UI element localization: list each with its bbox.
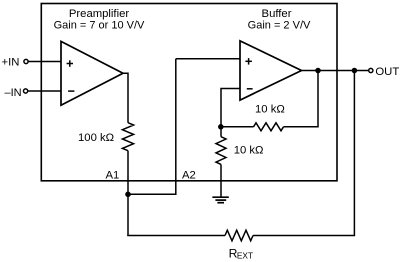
op-amp A1 + pin symbol bbox=[67, 60, 73, 67]
svg-text:+IN: +IN bbox=[2, 57, 20, 69]
wire to A2 noninverting input bbox=[176, 58, 240, 60]
svg-text:10 kΩ: 10 kΩ bbox=[234, 145, 264, 157]
wire feedback node to resistor bbox=[221, 126, 254, 128]
wire feedback node to ground resistor bbox=[220, 127, 222, 137]
op-amp A2 (buffer) bbox=[240, 41, 302, 100]
svg-text:EXT: EXT bbox=[237, 250, 253, 260]
svg-text:Gain = 7 or 10 V/V: Gain = 7 or 10 V/V bbox=[54, 20, 145, 32]
wire node A1 to pin A2 riser bbox=[128, 193, 176, 195]
svg-text:Preamplifier: Preamplifier bbox=[69, 8, 130, 20]
svg-text:Gain = 2 V/V: Gain = 2 V/V bbox=[248, 20, 311, 32]
label: Preamplifier Gain = 7 or 10 V/V bbox=[54, 8, 145, 32]
op-amp A2 - pin symbol bbox=[247, 88, 253, 90]
wire node A1 down to REXT bbox=[127, 194, 129, 235]
output terminal OUT bbox=[369, 68, 373, 72]
svg-text:A1: A1 bbox=[106, 170, 120, 182]
wire feedback resistor to output node bbox=[284, 71, 319, 127]
wire REXT right segment bbox=[253, 235, 355, 237]
junction node feedback bbox=[218, 124, 224, 130]
wire A1 output down to resistor bbox=[122, 73, 128, 123]
wire REXT left segment bbox=[127, 235, 225, 237]
svg-text:10 kΩ: 10 kΩ bbox=[255, 103, 285, 115]
input terminal +IN bbox=[24, 59, 28, 63]
wire -IN terminal to A1 inverting input bbox=[28, 90, 61, 92]
wire OUT tap down to REXT bbox=[353, 71, 355, 236]
junction node A2 output bbox=[315, 68, 321, 74]
wire ground resistor to ground bbox=[220, 164, 222, 197]
input terminal -IN bbox=[24, 89, 28, 93]
label: Buffer Gain = 2 V/V bbox=[248, 8, 311, 32]
resistor 10 kOhm to ground bbox=[216, 137, 226, 165]
wire pin A2 riser up bbox=[175, 59, 177, 195]
resistor REXT bbox=[225, 230, 253, 241]
amplifier enclosure box bbox=[41, 4, 337, 181]
op-amp A1 - pin symbol bbox=[68, 90, 74, 92]
wire A2 inverting input feedback bbox=[221, 89, 240, 127]
wire A2 output to OUT terminal bbox=[301, 70, 369, 72]
svg-text:A2: A2 bbox=[182, 170, 196, 182]
ground symbol bbox=[212, 197, 228, 203]
op-amp A2 + pin symbol bbox=[245, 58, 252, 65]
svg-text:100 kΩ: 100 kΩ bbox=[78, 132, 114, 144]
svg-text:Buffer: Buffer bbox=[262, 8, 292, 20]
label REXT bbox=[229, 247, 253, 261]
wire +IN terminal to A1 noninverting input bbox=[28, 61, 61, 63]
wire resistor to node A1 pin bbox=[127, 151, 129, 195]
junction node OUT tap bbox=[352, 68, 358, 74]
op-amp A1 (preamplifier) bbox=[61, 41, 123, 105]
svg-text:–IN: –IN bbox=[5, 87, 22, 99]
svg-text:OUT: OUT bbox=[375, 66, 399, 78]
resistor 10 kOhm feedback bbox=[254, 123, 284, 131]
junction node below pin A1 bbox=[125, 192, 131, 198]
resistor 100 kOhm bbox=[122, 123, 133, 151]
